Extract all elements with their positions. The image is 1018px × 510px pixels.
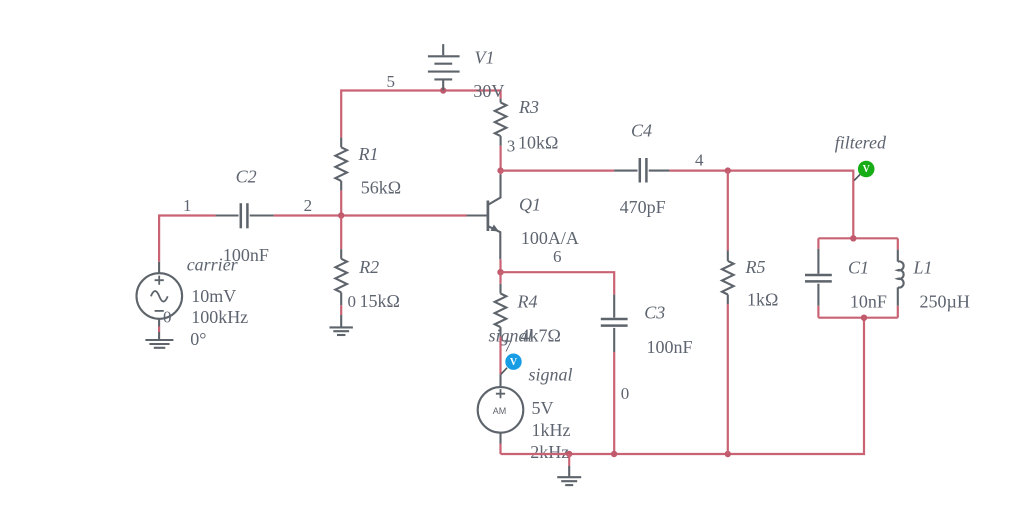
svg-text:30V: 30V: [473, 81, 504, 101]
junction node 2: [338, 212, 344, 218]
wire R1 bottom to node 2: [340, 191, 342, 216]
resistor R5: [722, 251, 734, 305]
wire node 3 to C4: [501, 170, 614, 172]
wire tank right lower: [897, 306, 899, 318]
probe signal: [501, 354, 522, 375]
svg-text:0: 0: [163, 308, 172, 327]
junction V1 on net 5: [440, 87, 446, 93]
capacitor C3: [601, 295, 628, 352]
wire tank top: [818, 237, 897, 239]
wire AM source to rail: [499, 444, 501, 455]
wire net 0 bottom rail: [501, 318, 865, 454]
AC source carrier: [137, 262, 183, 327]
junction rail ground: [566, 451, 572, 457]
svg-text:5: 5: [387, 72, 396, 91]
transistor Q1: [467, 174, 501, 259]
svg-text:0: 0: [621, 384, 630, 403]
capacitor C1: [805, 249, 832, 306]
svg-text:R3: R3: [518, 97, 539, 117]
wire C3 to rail: [613, 352, 615, 454]
wire net 6 to C3: [501, 272, 615, 294]
svg-text:signal: signal: [529, 364, 573, 384]
resistor R2: [335, 249, 347, 305]
svg-text:10kΩ: 10kΩ: [518, 133, 558, 153]
svg-text:100kHz: 100kHz: [191, 307, 248, 327]
svg-text:AM: AM: [493, 406, 507, 416]
wire Q1 emitter to node 6: [499, 259, 501, 272]
ground under R2: [330, 315, 353, 335]
wire net 1 (source to C2): [159, 216, 216, 262]
wire net 5 (R1 top to V1 and R3 top): [341, 91, 500, 138]
junction node 6: [497, 269, 503, 275]
svg-text:15kΩ: 15kΩ: [360, 291, 400, 311]
svg-text:R1: R1: [358, 144, 379, 164]
wire tank left lower: [817, 306, 819, 318]
svg-text:R4: R4: [517, 292, 538, 312]
wire node2 to R2: [340, 216, 342, 250]
svg-text:6: 6: [553, 247, 562, 266]
svg-text:2kHz: 2kHz: [530, 442, 569, 462]
wire C4 to node 4 and probe corner: [670, 171, 854, 239]
svg-text:V1: V1: [475, 48, 495, 68]
inductor L1: [898, 250, 904, 306]
wire R4 to AM source: [499, 337, 501, 375]
svg-text:1kHz: 1kHz: [532, 420, 571, 440]
svg-text:R2: R2: [358, 257, 379, 277]
svg-text:C3: C3: [644, 303, 665, 323]
svg-text:1: 1: [183, 196, 192, 215]
junction tank bottom: [861, 315, 867, 321]
wire R2 to ground: [340, 305, 342, 315]
svg-text:1kΩ: 1kΩ: [747, 290, 778, 310]
svg-text:0°: 0°: [190, 329, 206, 349]
svg-text:470pF: 470pF: [620, 197, 666, 217]
svg-text:100nF: 100nF: [647, 337, 693, 357]
svg-text:5V: 5V: [532, 398, 554, 418]
wire tank bottom: [818, 317, 897, 319]
svg-text:C4: C4: [631, 121, 652, 141]
wire node 4 to R5: [727, 171, 729, 251]
svg-text:100A/A: 100A/A: [521, 228, 579, 248]
wire tank right upper: [897, 238, 899, 249]
svg-text:2: 2: [304, 196, 313, 215]
wire Q1 collector stub: [500, 171, 502, 175]
wire tank left upper: [817, 238, 819, 249]
svg-text:10nF: 10nF: [850, 291, 887, 311]
svg-text:56kΩ: 56kΩ: [361, 178, 401, 198]
wire R5 to rail: [727, 304, 729, 454]
svg-text:250µH: 250µH: [920, 291, 970, 311]
wire node 6 to R4: [499, 272, 501, 284]
svg-text:V: V: [510, 357, 518, 368]
junction tank top: [850, 235, 856, 241]
resistor R3: [495, 99, 507, 146]
junction node 3: [497, 167, 503, 173]
probe filtered: [854, 161, 874, 181]
resistor R1: [335, 138, 347, 191]
svg-text:C2: C2: [236, 167, 257, 187]
svg-text:7: 7: [504, 337, 513, 356]
junction rail C3: [611, 451, 617, 457]
svg-text:0: 0: [348, 292, 357, 311]
ground under carrier: [145, 332, 173, 348]
svg-text:10mV: 10mV: [191, 286, 236, 306]
wire source to ground: [158, 327, 160, 333]
svg-text:Q1: Q1: [519, 195, 541, 215]
wire net 2 (C2 to Q1 base, with R1/R2 tap): [274, 214, 467, 216]
capacitor C2: [216, 203, 274, 228]
svg-text:C1: C1: [848, 258, 869, 278]
AM source signal: [478, 374, 524, 443]
resistor R4: [495, 284, 507, 337]
svg-text:V: V: [863, 164, 871, 175]
svg-text:R5: R5: [745, 257, 766, 277]
svg-text:4: 4: [695, 150, 704, 169]
ground at rail: [557, 454, 581, 485]
svg-text:carrier: carrier: [187, 255, 239, 275]
svg-text:3: 3: [507, 137, 516, 156]
junction rail R5: [725, 451, 731, 457]
svg-text:filtered: filtered: [835, 132, 887, 152]
capacitor C4: [614, 158, 670, 183]
svg-text:L1: L1: [913, 258, 933, 278]
wire R3 to node 3: [500, 146, 502, 171]
battery V1: [428, 44, 460, 90]
junction node 4: [725, 167, 731, 173]
